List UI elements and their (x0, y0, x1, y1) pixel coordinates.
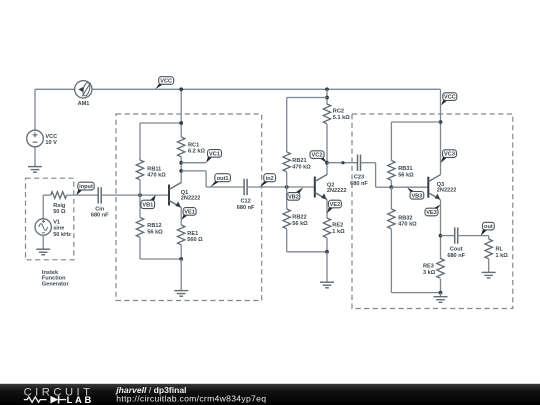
svg-text:RC2: RC2 (333, 109, 344, 115)
wire (205, 171, 207, 187)
wire junction (138, 193, 142, 197)
node input (76, 182, 94, 195)
transistor Q1 (169, 183, 200, 208)
node VE2 (327, 200, 342, 213)
node VC2 (310, 151, 327, 163)
node VB2 (287, 187, 303, 200)
label Instek Function Generator (42, 270, 70, 288)
resistor RE3 (423, 259, 444, 279)
transistor Q2 (315, 175, 347, 200)
ground (174, 291, 188, 297)
footer bar (0, 384, 540, 405)
svg-text:VB1: VB1 (142, 203, 153, 209)
transistor Q3 (428, 175, 456, 200)
CircuitLab logo diode (50, 396, 66, 404)
wire (326, 124, 328, 175)
svg-text:RE1: RE1 (187, 231, 198, 237)
resistor Rsig (51, 192, 67, 215)
wire (286, 172, 288, 187)
capacitor Cin (91, 187, 109, 218)
wire (42, 235, 44, 249)
resistor RB32 (388, 209, 417, 229)
svg-text:out1: out1 (217, 176, 229, 182)
svg-text:VB3: VB3 (411, 193, 422, 199)
svg-text:Cin: Cin (95, 206, 105, 212)
svg-text:VB2: VB2 (288, 195, 299, 201)
svg-text:56 kΩ: 56 kΩ (147, 229, 163, 235)
wire (391, 186, 428, 188)
svg-text:6.2 kΩ: 6.2 kΩ (188, 149, 205, 155)
wire (139, 195, 141, 217)
wire (391, 121, 440, 123)
wire (375, 163, 377, 188)
svg-text:470 kΩ: 470 kΩ (398, 222, 417, 228)
svg-text:680 nF: 680 nF (350, 181, 368, 187)
wire (361, 162, 376, 164)
wire (286, 229, 288, 252)
svg-text:VC1: VC1 (209, 152, 220, 158)
wire junction (325, 96, 329, 100)
wire (34, 89, 36, 130)
node VCC left (155, 77, 173, 89)
wire (180, 208, 182, 226)
svg-text:Rsig: Rsig (53, 203, 66, 209)
svg-text:C23: C23 (354, 175, 364, 181)
wire (181, 170, 206, 172)
svg-text:2N2222: 2N2222 (181, 196, 201, 202)
svg-text:50 kHz: 50 kHz (53, 232, 71, 238)
wire junction (439, 291, 443, 295)
wire (139, 238, 141, 260)
svg-text:RE2: RE2 (332, 223, 343, 229)
capacitor C12 (237, 179, 255, 211)
resistor RC1 (178, 137, 206, 157)
wire (287, 97, 327, 99)
wire (139, 180, 141, 195)
svg-text:VC2: VC2 (312, 153, 323, 159)
wire (488, 236, 490, 239)
wire junction (179, 161, 183, 165)
wire (390, 229, 392, 293)
node VB1 (141, 195, 156, 209)
resistor RC2 (323, 104, 350, 124)
wire (180, 259, 182, 290)
svg-text:AM1: AM1 (78, 101, 90, 107)
svg-text:50 Ω: 50 Ω (53, 209, 66, 215)
wire (287, 251, 327, 253)
wire (376, 186, 392, 188)
node out (481, 222, 495, 236)
wire (286, 187, 288, 209)
stage 3 amplifier enclosure (352, 114, 513, 309)
wire (440, 293, 442, 297)
stage 1 amplifier enclosure (116, 114, 262, 301)
wire (326, 252, 328, 282)
svg-text:470 kΩ: 470 kΩ (147, 173, 166, 179)
node VB3 (407, 187, 424, 199)
wire (67, 194, 98, 196)
wire (440, 200, 442, 259)
svg-text:VCC: VCC (45, 134, 57, 140)
svg-text:VCC: VCC (444, 95, 456, 101)
svg-text:680 nF: 680 nF (237, 205, 255, 211)
svg-text:LAB: LAB (67, 394, 94, 405)
ammeter AM1 (75, 81, 92, 107)
svg-text:RB31: RB31 (398, 166, 412, 172)
voltage source V1 (35, 219, 71, 238)
wire (181, 162, 206, 164)
svg-text:RB32: RB32 (398, 215, 412, 221)
wire (326, 238, 328, 252)
svg-text:input: input (79, 184, 93, 190)
svg-text:VE1: VE1 (184, 210, 195, 216)
svg-text:RC1: RC1 (188, 142, 199, 148)
resistor RE1 (178, 225, 204, 245)
wire (440, 279, 442, 293)
wire (390, 181, 392, 188)
resistor RB31 (388, 161, 414, 181)
wire (326, 89, 328, 104)
wire (247, 186, 315, 188)
svg-text:Generator: Generator (42, 282, 70, 288)
wire (140, 122, 181, 124)
voltage source VCC (27, 130, 58, 147)
node out1 (210, 174, 230, 187)
wire (43, 194, 51, 196)
wire (440, 89, 442, 175)
wire (390, 187, 392, 209)
ground (434, 297, 448, 303)
svg-text:RB11: RB11 (147, 166, 161, 172)
node VC1 (206, 150, 222, 163)
wire (180, 89, 182, 137)
wire (140, 258, 181, 260)
svg-text:56 kΩ: 56 kΩ (292, 221, 308, 227)
svg-text:2N2222: 2N2222 (327, 188, 347, 194)
wire (92, 88, 441, 90)
node VC3 (441, 150, 457, 163)
wire (139, 123, 141, 160)
svg-text:Cout: Cout (450, 247, 463, 253)
wire junction (285, 185, 289, 189)
wire (390, 122, 392, 161)
svg-text:56 kΩ: 56 kΩ (398, 172, 414, 178)
svg-text:out: out (484, 224, 493, 230)
svg-text:C12: C12 (240, 199, 250, 205)
wire (34, 147, 36, 166)
function generator enclosure (26, 178, 74, 260)
wire junction (325, 250, 329, 254)
svg-text:http://circuitlab.com/crm4w834: http://circuitlab.com/crm4w834yp7eq (116, 394, 266, 404)
wire (180, 245, 182, 259)
svg-text:RE3: RE3 (423, 264, 434, 270)
wire (441, 235, 455, 237)
svg-text:RB21: RB21 (292, 158, 306, 164)
svg-text:5.1 kΩ: 5.1 kΩ (333, 115, 350, 121)
ground (36, 249, 50, 255)
resistor RE2 (323, 218, 345, 238)
ground (28, 167, 42, 173)
resistor RB21 (283, 152, 311, 172)
wire junction (390, 185, 394, 189)
ground (482, 272, 496, 278)
svg-text:680 nF: 680 nF (91, 213, 109, 219)
wire junction (325, 161, 329, 165)
svg-text:1 kΩ: 1 kΩ (496, 253, 509, 259)
svg-text:1 kΩ: 1 kΩ (332, 229, 345, 235)
svg-text:470 kΩ: 470 kΩ (292, 164, 311, 170)
wire junction (341, 161, 344, 164)
wire junction (179, 121, 183, 125)
svg-text:sine: sine (53, 226, 64, 232)
svg-text:10 V: 10 V (45, 140, 57, 146)
svg-text:in2: in2 (266, 176, 274, 182)
wire (327, 162, 358, 164)
resistor RB22 (283, 209, 308, 229)
node VE1 (181, 208, 196, 220)
svg-text:VE2: VE2 (330, 202, 341, 208)
node VCC right (441, 93, 457, 106)
wire junction (439, 234, 443, 238)
svg-text:560 Ω: 560 Ω (187, 237, 203, 243)
wire junction (325, 87, 329, 91)
wire (488, 259, 490, 272)
CircuitLab logo resistor squiggle (24, 397, 47, 402)
wire (458, 235, 489, 237)
svg-text:RL: RL (496, 247, 504, 253)
wire (326, 200, 328, 219)
svg-text:RB22: RB22 (292, 215, 306, 221)
svg-text:RB12: RB12 (147, 223, 161, 229)
wire junction (179, 257, 183, 261)
wire junction (179, 87, 183, 91)
svg-text:VC3: VC3 (444, 152, 455, 158)
node VE3 (425, 205, 440, 217)
svg-text:680 nF: 680 nF (447, 253, 465, 259)
wire (286, 98, 288, 153)
ground (320, 282, 334, 288)
wire (180, 157, 182, 183)
svg-text:VCC: VCC (160, 79, 172, 85)
svg-text:V1: V1 (53, 219, 60, 225)
resistor RB12 (136, 218, 163, 238)
resistor RL (485, 239, 508, 259)
wire junction (179, 169, 183, 173)
wire (206, 186, 244, 188)
wire (102, 194, 169, 196)
svg-text:VE3: VE3 (426, 210, 437, 216)
node in2 (260, 174, 276, 187)
wire (391, 292, 440, 294)
resistor RB11 (136, 160, 166, 180)
svg-text:2N2222: 2N2222 (437, 188, 457, 194)
wire (42, 195, 44, 219)
wire junction (439, 120, 443, 124)
capacitor C23 (350, 155, 368, 187)
capacitor Cout (447, 227, 465, 259)
svg-text:3 kΩ: 3 kΩ (423, 270, 436, 276)
wire (35, 88, 75, 90)
